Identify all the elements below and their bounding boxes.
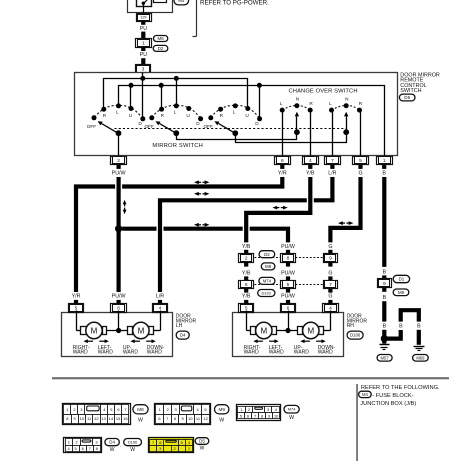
svg-text:12: 12 [94, 416, 99, 421]
svg-text:WARD: WARD [73, 350, 88, 356]
svg-text:5: 5 [75, 305, 78, 311]
svg-text:10: 10 [274, 413, 279, 418]
svg-text:Y/R: Y/R [72, 294, 81, 300]
svg-text:Y/R: Y/R [278, 171, 287, 177]
svg-text:M9: M9 [398, 290, 405, 295]
svg-text:G: G [328, 244, 332, 250]
svg-text:15: 15 [116, 416, 121, 421]
svg-text:WARD: WARD [98, 350, 113, 356]
svg-text:D: D [255, 121, 259, 126]
svg-text:L: L [116, 110, 119, 115]
svg-text:10: 10 [80, 416, 85, 421]
svg-text:WARD: WARD [269, 350, 284, 356]
svg-text:16: 16 [123, 416, 128, 421]
svg-text:8: 8 [287, 256, 290, 262]
svg-text:WARD: WARD [244, 350, 259, 356]
svg-text:Y/B: Y/B [242, 294, 251, 300]
svg-text:Y/B: Y/B [242, 244, 251, 250]
svg-text:D5: D5 [199, 439, 205, 444]
svg-text:12F: 12F [140, 15, 147, 20]
svg-text:6: 6 [245, 282, 248, 288]
svg-text:D2: D2 [264, 252, 270, 257]
svg-text:WARD: WARD [123, 350, 138, 356]
svg-text:MIRROR SWITCH: MIRROR SWITCH [152, 143, 203, 149]
svg-text:OFF: OFF [87, 124, 97, 129]
svg-text:7: 7 [331, 158, 334, 164]
svg-text:N: N [296, 96, 299, 101]
svg-text:2: 2 [245, 256, 248, 262]
svg-text:PU/W: PU/W [281, 271, 295, 277]
svg-text:W: W [289, 415, 294, 421]
svg-text:OFF: OFF [204, 124, 214, 129]
svg-text:13: 13 [101, 416, 106, 421]
svg-text:PU: PU [140, 52, 147, 58]
svg-text:OFF: OFF [145, 124, 155, 129]
svg-text:5: 5 [245, 305, 248, 311]
svg-text:D102: D102 [262, 290, 272, 295]
svg-text:M: M [260, 326, 267, 335]
svg-text:M: M [138, 326, 145, 335]
svg-text:6: 6 [287, 305, 290, 311]
svg-text:L: L [280, 101, 283, 106]
svg-text:M74: M74 [263, 278, 272, 283]
svg-text:REFER TO PG-POWER.: REFER TO PG-POWER. [200, 0, 269, 7]
svg-text:Y/B: Y/B [242, 271, 251, 277]
svg-text:D4: D4 [180, 333, 186, 338]
svg-text:PU/W: PU/W [281, 294, 295, 300]
svg-text:.: . [120, 443, 121, 449]
svg-text:RH: RH [347, 323, 355, 329]
svg-text:WARD: WARD [294, 350, 309, 356]
svg-text:- FUSE BLOCK-: - FUSE BLOCK- [372, 393, 414, 399]
svg-text:PU/W: PU/W [112, 171, 126, 177]
svg-text:L: L [233, 110, 236, 115]
svg-text:2: 2 [117, 158, 120, 164]
svg-text:W: W [138, 417, 143, 423]
svg-text:PU: PU [140, 26, 147, 32]
svg-text:D106: D106 [350, 333, 361, 338]
svg-text:WARD: WARD [318, 350, 333, 356]
svg-text:B: B [383, 269, 387, 275]
svg-text:M6: M6 [158, 36, 165, 41]
svg-text:9: 9 [383, 281, 386, 287]
svg-text:SWITCH: SWITCH [400, 88, 421, 94]
svg-text:5: 5 [287, 282, 290, 288]
svg-text:B: B [399, 324, 403, 330]
svg-text:W: W [130, 447, 135, 453]
svg-text:12: 12 [203, 416, 208, 421]
svg-text:D106: D106 [128, 440, 137, 444]
svg-text:L: L [174, 110, 177, 115]
svg-text:1: 1 [383, 158, 386, 164]
svg-text:G: G [328, 294, 332, 300]
svg-text:W: W [200, 446, 205, 452]
svg-text:10: 10 [188, 416, 193, 421]
svg-text:M: M [307, 326, 314, 335]
svg-text:1: 1 [142, 41, 145, 47]
svg-text:PU/W: PU/W [112, 294, 126, 300]
svg-text:B: B [383, 295, 387, 301]
svg-text:14: 14 [109, 416, 114, 421]
svg-text:6: 6 [117, 305, 120, 311]
svg-text:W: W [110, 447, 115, 453]
svg-text:M74: M74 [288, 407, 297, 412]
svg-text:B: B [417, 324, 421, 330]
svg-text:G: G [358, 171, 362, 177]
svg-text:4: 4 [329, 305, 332, 311]
svg-text:4: 4 [159, 305, 162, 311]
svg-text:JUNCTION BOX (J/B): JUNCTION BOX (J/B) [360, 401, 416, 407]
svg-text:5: 5 [359, 158, 362, 164]
svg-text:M9: M9 [219, 407, 226, 412]
svg-text:LH: LH [176, 323, 183, 329]
svg-text:M: M [91, 326, 98, 335]
svg-text:M8: M8 [265, 264, 272, 269]
svg-text:WARD: WARD [147, 350, 162, 356]
svg-text:D5: D5 [404, 95, 410, 100]
svg-text:4: 4 [309, 158, 312, 164]
svg-text:L: L [329, 101, 332, 106]
svg-text:M57: M57 [381, 355, 390, 360]
svg-text:D2: D2 [158, 46, 164, 51]
svg-text:7: 7 [329, 282, 332, 288]
svg-text:M4: M4 [178, 0, 185, 3]
svg-text:N: N [345, 96, 348, 101]
svg-text:B: B [383, 324, 387, 330]
svg-text:M4: M4 [362, 392, 368, 397]
svg-text:D4: D4 [109, 440, 115, 445]
svg-text:L/R: L/R [328, 171, 336, 177]
svg-text:Y/B: Y/B [306, 171, 315, 177]
svg-text:D: D [196, 121, 200, 126]
svg-text:9: 9 [329, 256, 332, 262]
svg-text:W: W [219, 417, 224, 423]
svg-text:REFER TO THE FOLLOWING.: REFER TO THE FOLLOWING. [361, 385, 440, 391]
svg-text:CHANGE OVER SWITCH: CHANGE OVER SWITCH [289, 88, 358, 94]
svg-text:B: B [382, 171, 386, 177]
svg-text:D1: D1 [399, 277, 405, 282]
svg-text:M8: M8 [137, 407, 144, 412]
svg-text:6: 6 [281, 158, 284, 164]
svg-text:3: 3 [142, 66, 145, 72]
svg-text:L/R: L/R [156, 294, 164, 300]
svg-text:G: G [328, 271, 332, 277]
svg-text:M69: M69 [416, 355, 425, 360]
svg-text:R: R [359, 101, 363, 106]
svg-text:PU/W: PU/W [281, 244, 295, 250]
